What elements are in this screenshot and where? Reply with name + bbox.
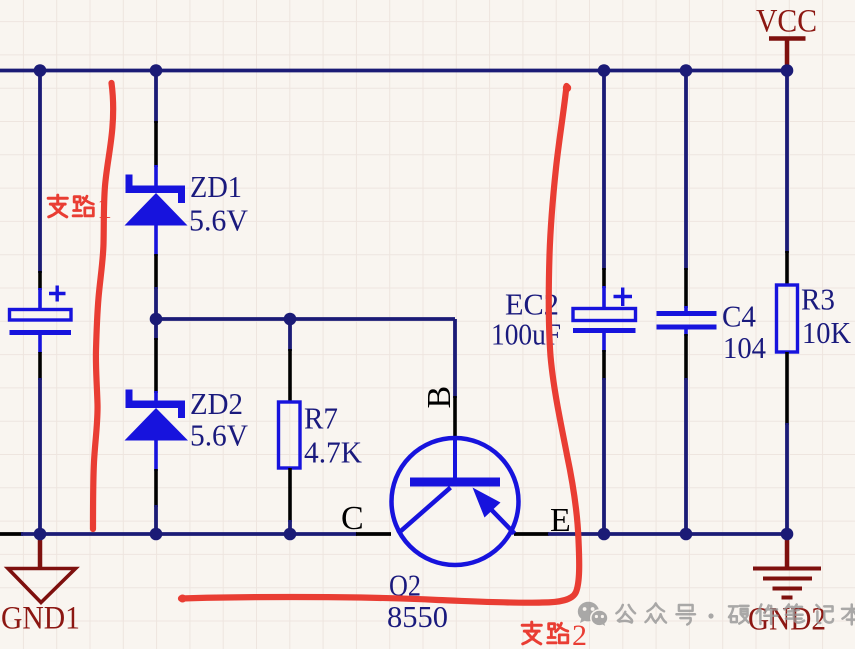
wire: bottom horizontal GND net left of Q2 <box>21 532 357 536</box>
wire: ZD1 to middle net <box>154 287 158 319</box>
svg-text:10K: 10K <box>802 315 852 350</box>
junction dots top net <box>34 64 794 77</box>
wire: R3 branch upper <box>785 71 789 254</box>
wire: top horizontal VCC net <box>0 69 787 73</box>
wire: bottom horizontal GND net right of Q2 <box>548 532 787 536</box>
svg-text:2: 2 <box>572 619 587 649</box>
svg-text:B: B <box>421 386 458 409</box>
capacitor C1 (polarized, left branch) <box>10 286 72 354</box>
zener diode ZD2 <box>125 390 189 472</box>
svg-text:GND1: GND1 <box>1 601 80 637</box>
svg-text:104: 104 <box>723 330 766 365</box>
ground symbol GND2 (earth) <box>753 534 821 598</box>
svg-text:E: E <box>550 502 571 539</box>
zener diode ZD1 pin (cathode) <box>154 121 158 167</box>
annotation: branch line 1 (red stroke) <box>93 83 113 529</box>
svg-text:VCC: VCC <box>756 4 817 40</box>
wire: middle net to ZD2 <box>154 319 158 340</box>
svg-text:8550: 8550 <box>387 599 448 634</box>
capacitor C4 <box>657 306 717 336</box>
svg-text:ZD2: ZD2 <box>190 386 243 421</box>
wire: middle net corner down to Q2 base <box>453 319 457 398</box>
wire: left branch vertical lower <box>38 378 42 534</box>
annotation text 支路2 <box>522 619 587 649</box>
resistor R3 pin 1 <box>785 251 789 286</box>
transistor Q2 (PNP 8550) <box>392 437 519 565</box>
wire: left branch vertical upper <box>38 71 42 274</box>
wire: Q2 emitter pin stub <box>514 532 549 536</box>
resistor R3 <box>777 285 798 352</box>
junction dots middle net <box>150 313 297 326</box>
transistor Q2 base pin <box>453 396 457 439</box>
capacitor C1 pin 2 <box>38 352 42 380</box>
junction dots bottom net <box>34 528 794 541</box>
svg-text:4.7K: 4.7K <box>304 435 363 470</box>
zener diode ZD2 pin (cathode) <box>154 338 158 393</box>
svg-text:R3: R3 <box>801 282 835 317</box>
svg-text:5.6V: 5.6V <box>190 418 249 453</box>
watermark text 公众号·硬件笔记本 <box>616 603 855 624</box>
zener diode ZD2 pin (anode) <box>154 469 158 507</box>
svg-text:R7: R7 <box>304 401 338 436</box>
capacitor C4 pin 1 <box>684 268 688 308</box>
resistor R3 pin 2 <box>785 352 789 425</box>
resistor R7 pin 1 <box>288 349 292 403</box>
wire: C4 branch lower <box>684 378 688 534</box>
zener diode ZD1 <box>125 165 188 256</box>
wire: middle net to R7 <box>288 319 292 351</box>
svg-text:5.6V: 5.6V <box>189 203 249 238</box>
resistor R7 pin 2 <box>288 468 292 522</box>
svg-text:C: C <box>341 500 364 537</box>
power symbol VCC <box>769 39 806 73</box>
svg-text:1: 1 <box>97 192 112 225</box>
capacitor EC2 pin 1 <box>602 268 606 288</box>
annotation text 支路1 <box>48 192 112 225</box>
wire: ZD branch top segment <box>154 71 158 124</box>
wire: bottom horizontal GND net (left pin stub) <box>0 532 23 536</box>
resistor R7 <box>279 402 301 468</box>
wire: middle horizontal net (ZD junction to Q2 base) <box>156 317 455 321</box>
annotation: branch line 2 (red stroke) <box>181 86 579 603</box>
wire: C4 branch upper <box>684 71 688 271</box>
wire: Q2 collector pin stub <box>356 532 391 536</box>
capacitor C1 pin 1 <box>38 271 42 290</box>
wire: ZD2 to bottom net <box>154 505 158 534</box>
capacitor EC2 (polarized) <box>573 286 636 352</box>
ground symbol GND1 <box>8 534 76 603</box>
zener diode ZD1 pin (anode) <box>154 254 158 289</box>
wire: R3 branch lower <box>785 423 789 534</box>
wire: EC2 branch upper <box>602 71 606 271</box>
wire: R7 to bottom net <box>288 520 292 534</box>
watermark WeChat icon <box>578 602 608 628</box>
svg-text:C4: C4 <box>722 299 756 334</box>
capacitor EC2 pin 2 <box>602 350 606 380</box>
wire: EC2 branch lower <box>602 378 606 534</box>
svg-text:ZD1: ZD1 <box>190 169 242 204</box>
capacitor C4 pin 2 <box>684 334 688 380</box>
